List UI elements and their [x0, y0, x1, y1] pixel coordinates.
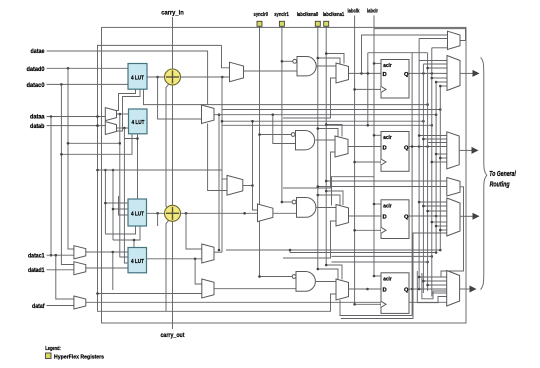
- wire G1 bubble input from synclr1: [282, 60, 293, 62]
- junction G2 feed: [272, 113, 275, 116]
- wire muxA branch down to LUT4: [120, 114, 128, 257]
- wire G4 bubble input from synclr0: [260, 276, 293, 278]
- wire LUT4 output to bottom mux1: [147, 258, 202, 260]
- wire datac1 feedback to dataf mux: [56, 255, 74, 299]
- svg-text:synclr1: synclr1: [274, 12, 289, 18]
- legend: [45, 346, 104, 361]
- wire OM1 arrow: [460, 72, 473, 74]
- wire OM4 stub 277: [419, 276, 447, 278]
- svg-text:aclr: aclr: [383, 63, 392, 69]
- mux datac1 input select: [74, 246, 86, 259]
- junction midband121 left: [221, 120, 224, 123]
- wire labclkena1 branch cm2: [326, 125, 342, 137]
- flip-flop FF1: [381, 60, 409, 99]
- mux OM2 output: [447, 132, 459, 169]
- wire mux1 output to gate G1: [244, 70, 298, 72]
- wire labclkena0 branch cm4: [318, 269, 338, 280]
- junction rail105: [104, 169, 107, 172]
- junction Q4 a: [411, 288, 414, 291]
- HyperFlex register synclr1: [279, 21, 284, 26]
- wire G3 output to cm3: [317, 207, 337, 209]
- wire OM1 stub 82: [436, 81, 447, 83]
- wire OM4 stub 285: [428, 284, 447, 286]
- adder A1: [165, 69, 181, 85]
- wire labclk vertical: [354, 16, 356, 305]
- mux SM1 small top: [448, 31, 461, 49]
- flip-flop FF4: [381, 273, 409, 314]
- wire LUT3-LUT4 squiggle 1: [105, 226, 135, 234]
- wire SM1 output loop: [374, 29, 466, 41]
- junction synclr0 G4: [258, 275, 261, 278]
- wire bottom midband 256: [290, 252, 436, 254]
- svg-text:D: D: [383, 288, 387, 294]
- svg-text:carry_out: carry_out: [161, 332, 186, 339]
- junction OM2 135: [418, 134, 421, 137]
- junction line170 left: [96, 169, 99, 172]
- wire cm1 output to D1: [349, 72, 382, 74]
- junction OM3 211: [426, 210, 429, 213]
- HyperFlex register legend swatch: [46, 353, 52, 359]
- junction Q3 a: [435, 215, 438, 218]
- wire bottom midband 262: [332, 261, 428, 263]
- junction midband125 end: [431, 124, 434, 127]
- svg-text:Q: Q: [404, 288, 409, 294]
- svg-text:Q: Q: [404, 145, 409, 151]
- wire aclr2: [374, 134, 381, 136]
- LUT U1: [128, 64, 147, 90]
- junction D1 b: [367, 72, 370, 75]
- wire drop from stair into LUT3 top: [137, 139, 139, 200]
- mux bottom upper: [227, 175, 243, 195]
- junction bmid256: [435, 251, 438, 254]
- svg-text:datac1: datac1: [28, 253, 45, 260]
- wire OM4 stub 281: [423, 280, 447, 282]
- wire OM4 U loop a: [417, 271, 447, 303]
- wire rail 105 bottom half: [104, 170, 106, 234]
- wire bottom midband 256.4: [332, 255, 432, 257]
- svg-text:D: D: [383, 145, 387, 151]
- wire G4 output to cm4: [316, 281, 336, 283]
- junction midband121 end: [422, 120, 425, 123]
- wire LUT3 input 2: [113, 208, 128, 210]
- junction OM1 86: [439, 85, 442, 88]
- wire OM3 stub 222: [432, 221, 448, 223]
- wire riser from bottom-upper mux output: [252, 121, 254, 185]
- wire aclr4: [374, 275, 381, 277]
- gate G4 nand: [292, 272, 315, 292]
- wire right bundle vertical 1: [418, 39, 420, 290]
- svg-text:datad1: datad1: [28, 267, 45, 274]
- junction synclr0 G2: [258, 133, 261, 136]
- junction ena0 cm1: [317, 57, 320, 60]
- junction LUT3 in1: [104, 202, 107, 205]
- brace to general routing: [481, 58, 487, 290]
- wire SM2 output down to OM4: [441, 187, 464, 277]
- wire Q4 rail: [340, 300, 412, 316]
- junction datac0: [60, 83, 63, 86]
- mux bottom low1: [202, 244, 214, 263]
- wire labclr vertical: [373, 16, 375, 277]
- wire OM3 arrow: [460, 215, 473, 217]
- junction on datac0 vertical: [60, 153, 63, 156]
- wire labclkena0 branch cm2: [318, 129, 338, 138]
- wire aclr3: [374, 203, 381, 205]
- wire branch down to bottom mux1 top input: [186, 213, 202, 249]
- junction SM2 in1: [325, 180, 328, 183]
- wire midband 125.3: [222, 124, 432, 126]
- wire adder1 output to mux1: [180, 76, 230, 78]
- wire LUT1 out branch down to M1 lower input: [158, 77, 202, 119]
- wire labclkena1 vertical: [325, 26, 327, 265]
- junction OM3 226: [435, 225, 438, 228]
- mux carry-select top: [230, 62, 244, 81]
- wire OM3 stub 211: [428, 210, 448, 212]
- wire datad1 mux out to LUT4: [86, 267, 128, 269]
- HyperFlex register labclkena1: [324, 21, 329, 26]
- wire left loop from top-left down to bottom rail: [98, 45, 337, 311]
- junction v412 Q2: [411, 145, 414, 148]
- wire datad1: [47, 269, 74, 271]
- wire right bundle vertical 5: [435, 82, 437, 252]
- wire Q1 to OM1: [409, 72, 447, 74]
- wire share line below adder2: [166, 220, 169, 311]
- junction OM3 222: [431, 221, 434, 224]
- junction stair drop: [136, 137, 139, 140]
- wire LUT3 input 3: [119, 196, 129, 215]
- wire OM2 stub 162: [432, 161, 448, 163]
- wire clk1: [355, 88, 381, 90]
- wire long line 170: [98, 169, 223, 171]
- mux M1 mid: [202, 105, 215, 124]
- svg-text:aclr: aclr: [383, 276, 392, 282]
- junction OM4 281: [422, 280, 425, 283]
- junction ena1 cm4: [325, 264, 328, 267]
- wire datac0 feedback down to datad1 mux: [61, 84, 74, 264]
- junction v219 top: [218, 113, 221, 116]
- wire SM2 input 2 from labclkena0: [318, 186, 447, 188]
- gate G1 nand: [293, 57, 316, 76]
- wire mux B output to LUT2: [117, 127, 129, 129]
- junction ena0 cm2: [317, 127, 320, 130]
- junction OM3 230: [439, 229, 442, 232]
- junction on datad0 vertical: [67, 142, 70, 145]
- svg-text:HyperFlex Registers: HyperFlex Registers: [54, 355, 104, 361]
- svg-text:labclk: labclk: [348, 9, 361, 15]
- junction LUT3 in2: [112, 208, 115, 211]
- wire right bundle vertical 6: [439, 86, 441, 250]
- wire inter-LUT squiggle 3 to midband: [144, 89, 428, 104]
- wire Q2 to OM2: [409, 146, 447, 148]
- svg-text:labclkena0: labclkena0: [297, 12, 319, 18]
- wire OM3 stub 206: [423, 205, 447, 207]
- mux OM1 output: [447, 56, 460, 91]
- junction Q2 b: [426, 145, 429, 148]
- gate G2 nand: [291, 131, 314, 150]
- wire drop into LUT4 top: [133, 240, 135, 248]
- wire share line adder1 to adder2: [166, 84, 169, 209]
- svg-text:Legend:: Legend:: [45, 346, 61, 352]
- mux cm3 clock select: [336, 205, 349, 227]
- junction LUT1 out: [156, 76, 159, 79]
- wire bottom rail 2: [341, 233, 447, 319]
- wire cm3 top input from right: [332, 177, 375, 206]
- junction ena1 cm1: [325, 52, 328, 55]
- mux bottom mid: [258, 204, 273, 222]
- wire aclr1: [374, 62, 381, 64]
- junction Q1 b: [431, 72, 434, 75]
- wire OM3 stub 230: [440, 229, 447, 231]
- wire SM2 input 1 from labclkena1: [326, 180, 447, 182]
- junction OM3 206: [422, 205, 425, 208]
- wire LUT2 bottom pin 1 stair: [124, 134, 137, 139]
- wire bottom upper mux output: [243, 185, 253, 187]
- wire midband 109.5: [222, 109, 440, 111]
- svg-text:datac0: datac0: [27, 82, 45, 89]
- wire LUT4 out branch to bottom mux2: [195, 259, 202, 284]
- wire dataf mux out long: [86, 301, 447, 303]
- junction OM2 154: [435, 153, 438, 156]
- junction synclr1 G1: [281, 60, 284, 63]
- svg-text:4 LUT: 4 LUT: [132, 120, 145, 126]
- junction loop 293: [96, 292, 99, 295]
- wire labclkena0 vertical: [317, 26, 319, 269]
- svg-text:datab: datab: [30, 123, 45, 130]
- wire SM1 input 3: [432, 47, 448, 49]
- junction synclr1 G3: [281, 201, 284, 204]
- junction clk1: [353, 88, 356, 91]
- wire cm2 output to D2: [348, 146, 381, 148]
- wire OM3 stub 226: [436, 225, 447, 227]
- wire inter-LUT squiggle 1: [105, 89, 135, 110]
- arrowhead OM1: [473, 70, 480, 77]
- wire cm1 loop: [283, 78, 336, 118]
- HyperFlex register synclr0: [257, 21, 262, 26]
- wire SM1 input 1 long with riser to D1: [362, 35, 448, 73]
- junction ena0 cm4: [317, 268, 320, 271]
- wire OM2 stub 158: [440, 157, 447, 159]
- svg-text:datae: datae: [31, 48, 45, 55]
- svg-text:To General: To General: [489, 171, 516, 178]
- wire branch down from datac1 out: [112, 252, 114, 290]
- junction adder2 out b: [243, 212, 246, 215]
- junction Q1 a: [422, 72, 425, 75]
- junction LUT4 out: [194, 258, 197, 261]
- wire OM1 stub 78: [432, 77, 447, 79]
- junction OM2 162: [431, 161, 434, 164]
- wire left rail 143.3: [68, 142, 120, 144]
- junction Q4 b: [418, 288, 421, 291]
- junction adder1 out: [221, 76, 224, 79]
- junction D1 riser: [367, 124, 370, 127]
- junction clk2: [353, 161, 356, 164]
- wire OM3 stub 202: [419, 201, 447, 203]
- mux datab input select: [105, 122, 116, 135]
- junction ena1 cm3: [325, 190, 328, 193]
- wire LUT3-LUT4 squiggle 2: [113, 226, 140, 240]
- gate G3 nand: [292, 198, 316, 218]
- wire OM2 stub 139: [423, 138, 447, 140]
- wire OM2 arrow: [459, 149, 472, 151]
- wire synclr0 vertical: [259, 26, 261, 276]
- junction OM2 139: [422, 138, 425, 141]
- junction aclr2: [373, 134, 376, 137]
- wire OM4 U loop b: [422, 273, 447, 299]
- junction rail113: [112, 169, 115, 172]
- mux cm4 clock select: [336, 279, 349, 300]
- wire bottom mux1 output corner: [214, 251, 222, 253]
- svg-text:labclr: labclr: [367, 9, 379, 15]
- svg-text:4 LUT: 4 LUT: [131, 259, 144, 265]
- wire bottom mux2 lower input from loop: [98, 293, 202, 295]
- junction OM1 78: [431, 77, 434, 80]
- wire LUT3 out branch down: [157, 213, 159, 226]
- svg-text:4 LUT: 4 LUT: [131, 76, 144, 82]
- junction riser121: [251, 120, 254, 123]
- junction dataa2: [96, 115, 99, 118]
- wire inter-LUT squiggle 2: [105, 89, 140, 131]
- junction SM2 in2: [317, 185, 320, 188]
- junction datac1 mux out: [112, 251, 115, 254]
- junction LUT3 out: [156, 212, 159, 215]
- wire G2 bubble input from synclr0: [260, 134, 292, 136]
- wire datad0: [47, 67, 129, 69]
- wire midband 121.2: [222, 120, 423, 122]
- wire G3 bubble input from synclr1: [282, 201, 292, 203]
- junction D4: [366, 288, 369, 291]
- mux dataa input select: [105, 108, 116, 121]
- wire LUT2 bottom pin 2 down to left rail 154.3: [61, 134, 132, 155]
- wire stub into bottom upper mux top input: [222, 178, 228, 180]
- svg-text:Q: Q: [404, 72, 409, 78]
- junction datac1: [55, 254, 58, 257]
- wire bmid256 riser: [289, 250, 291, 253]
- mux OM3 output: [447, 198, 460, 236]
- wire datad0 feedback down to datac1 mux: [68, 68, 74, 249]
- wire dataa feedback down: [50, 117, 52, 256]
- junction bmid249: [439, 249, 442, 252]
- wire long vertical 219 linking halves: [218, 115, 220, 250]
- wire labclkena1 branch cm1: [326, 54, 344, 64]
- wire clk4: [355, 303, 381, 305]
- wire OM2 stub 154: [436, 153, 447, 155]
- wire bottom midband 249.5: [226, 249, 440, 251]
- svg-text:datad0: datad0: [27, 66, 45, 73]
- wire datac0: [47, 83, 129, 85]
- wire OM4 arrow: [460, 288, 470, 290]
- junction midband104 end: [426, 103, 429, 106]
- mux cm2 clock select: [335, 136, 348, 157]
- wire clk2: [355, 161, 381, 163]
- junction OM1 82: [435, 81, 438, 84]
- wire LUT1 output to adder1: [147, 76, 165, 78]
- junction aclr1: [373, 62, 376, 65]
- wire datac1: [47, 254, 74, 256]
- wire D1 riser: [367, 53, 369, 126]
- wire cm3 output to D3: [349, 215, 382, 217]
- wire LUT3 output to adder2: [147, 212, 165, 214]
- wire rail 113 bottom half: [112, 170, 114, 240]
- junction D1 a: [360, 72, 363, 75]
- wire mux A output to LUT2: [117, 113, 129, 115]
- wire muxB branch down to LUT4: [124, 128, 128, 263]
- wire OM1 stub 86: [440, 85, 447, 87]
- wire carry chain bottom / carry_out: [172, 221, 174, 329]
- wire long vertical 412: [411, 53, 413, 316]
- wire cm2 loop: [283, 152, 336, 188]
- junction clk4: [353, 303, 356, 306]
- junction muxB out: [123, 127, 126, 130]
- svg-text:D: D: [383, 72, 387, 78]
- wire labclkena0 branch cm1: [318, 58, 340, 64]
- junction OM4 277: [418, 276, 421, 279]
- mux dataf input select: [74, 296, 86, 309]
- wire carry_in: [172, 17, 174, 69]
- wire mux1 top input from left loop: [222, 45, 230, 67]
- HyperFlex register labclkena0: [315, 21, 320, 26]
- wire right bundle vertical 2: [422, 64, 424, 293]
- wire G2 output to cm2: [316, 139, 336, 141]
- wire SM1 input 2: [419, 38, 447, 40]
- wire cm3 loop: [283, 221, 336, 258]
- junction datab: [96, 124, 99, 127]
- junction bmid262: [426, 261, 429, 264]
- wire carry chain middle: [172, 85, 174, 205]
- flip-flop FF3: [381, 200, 409, 239]
- junction midband109 end: [439, 108, 442, 111]
- junction OM4 285: [426, 284, 429, 287]
- mux datad1 input select: [74, 262, 86, 275]
- junction v219 bottom: [218, 249, 221, 252]
- wire datac1 mux out to LUT4: [86, 251, 128, 253]
- junction dataa: [50, 115, 53, 118]
- wire adder1 out branch long vertical: [221, 77, 223, 252]
- junction bmid2564: [431, 255, 434, 258]
- wire OM4 stub 293: [432, 292, 447, 294]
- LUT U4: [128, 248, 147, 273]
- junction midband114 end: [435, 113, 438, 116]
- wire dataa: [47, 116, 106, 118]
- svg-text:aclr: aclr: [383, 203, 392, 209]
- junction bupper out: [251, 184, 254, 187]
- svg-text:Routing: Routing: [490, 181, 511, 188]
- adder A2: [165, 205, 181, 221]
- svg-text:dataf: dataf: [32, 303, 45, 310]
- wire labclkena1 branch cm4: [326, 265, 342, 280]
- wire Q4 to OM4 arrow line: [409, 288, 447, 290]
- LUT U2: [129, 109, 148, 134]
- wire cm4 output to D4: [349, 288, 382, 290]
- wire M1 output midband 114.7: [214, 114, 436, 116]
- LUT U3: [128, 199, 147, 226]
- wire feedback 52.7 to bundle: [368, 52, 428, 54]
- svg-text:dataa: dataa: [30, 114, 45, 121]
- svg-text:Q: Q: [404, 215, 409, 221]
- junction clk3: [353, 229, 356, 232]
- wire adder2 output through bottom mux to G3: [180, 212, 297, 214]
- mux bottom low2: [202, 279, 214, 298]
- junction OM3 202: [418, 201, 421, 204]
- arrowhead OM4: [470, 286, 477, 293]
- arrowhead OM2: [472, 147, 479, 154]
- junction squiggle2 drop: [133, 239, 136, 242]
- svg-text:4 LUT: 4 LUT: [131, 212, 144, 218]
- wire Q3 to OM3: [409, 215, 447, 217]
- mux SM2 small mid: [447, 178, 460, 197]
- wire labclkena1 branch cm3: [326, 191, 343, 205]
- junction bmid256 riser: [289, 249, 292, 252]
- wire OM2 stub 135.5: [419, 135, 447, 137]
- wire datae continuation below mux M1 to bottom upper mux lower input: [208, 124, 228, 191]
